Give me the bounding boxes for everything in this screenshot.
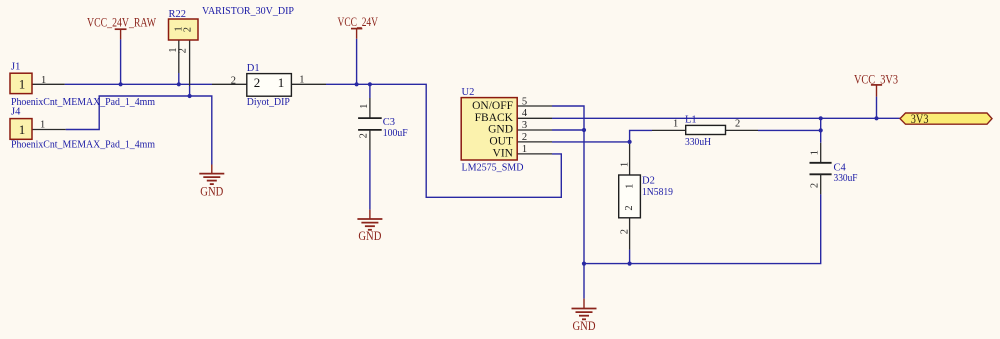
wire U2 FBACK to 3V3 rail xyxy=(552,117,900,119)
svg-text:330uH: 330uH xyxy=(685,137,711,148)
ground GND at J4 net xyxy=(199,165,224,199)
svg-text:GND: GND xyxy=(358,229,381,243)
wire VCC_24V power stem xyxy=(356,39,358,85)
svg-text:PhoenixCnt_MEMAX_Pad_1_4mm: PhoenixCnt_MEMAX_Pad_1_4mm xyxy=(11,139,155,150)
svg-text:1: 1 xyxy=(620,162,631,167)
diode D2 xyxy=(619,144,673,250)
svg-text:4: 4 xyxy=(522,108,528,119)
wire L1 pin2 to C4 node xyxy=(758,118,821,143)
junction dot R22 pin2 xyxy=(188,94,192,98)
svg-text:D2: D2 xyxy=(642,176,655,187)
svg-text:VARISTOR_30V_DIP: VARISTOR_30V_DIP xyxy=(202,6,294,17)
junction dot R22 pin1 xyxy=(177,82,181,86)
svg-text:1: 1 xyxy=(810,150,821,155)
wire U2 GND pin to vertical xyxy=(552,129,584,131)
IC U2 LM2575 xyxy=(461,87,552,174)
svg-text:D1: D1 xyxy=(247,63,260,74)
svg-text:ON/OFF: ON/OFF xyxy=(472,100,513,112)
wire C3 bottom to GND xyxy=(369,150,371,210)
junction dot VCC_24V xyxy=(355,82,359,86)
svg-text:2: 2 xyxy=(620,229,631,234)
svg-text:1: 1 xyxy=(625,184,636,189)
varistor R22 xyxy=(168,6,294,86)
wire U2 ON/OFF to GND vertical xyxy=(552,106,584,264)
svg-text:1: 1 xyxy=(40,120,45,131)
junction dot GND pin vertical xyxy=(582,128,586,132)
svg-text:1: 1 xyxy=(673,118,678,129)
svg-text:C3: C3 xyxy=(383,117,395,128)
svg-text:3: 3 xyxy=(522,120,527,131)
svg-text:2: 2 xyxy=(810,183,821,188)
svg-text:VIN: VIN xyxy=(493,148,514,160)
junction dot VCC_3V3 xyxy=(874,116,878,120)
svg-text:1N5819: 1N5819 xyxy=(642,187,673,198)
svg-text:1: 1 xyxy=(299,75,304,86)
svg-text:R22: R22 xyxy=(169,9,187,20)
junction dot rail at GND drop xyxy=(582,262,586,266)
ground GND at rail xyxy=(572,299,597,334)
svg-text:2: 2 xyxy=(177,48,188,53)
svg-text:J4: J4 xyxy=(11,107,21,118)
svg-text:J1: J1 xyxy=(11,62,20,73)
svg-text:330uF: 330uF xyxy=(834,173,858,184)
capacitor C3 xyxy=(358,98,408,150)
capacitor C4 xyxy=(810,143,858,195)
diode D1 xyxy=(212,63,326,108)
svg-text:L1: L1 xyxy=(685,115,697,126)
svg-text:FBACK: FBACK xyxy=(475,112,514,124)
junction dot L1 C4 xyxy=(819,128,823,132)
svg-text:2: 2 xyxy=(254,75,260,90)
connector J1 xyxy=(10,62,155,108)
junction dot C4 top xyxy=(819,116,823,120)
svg-text:C4: C4 xyxy=(834,162,847,173)
wire U2 OUT to D2 and L1 xyxy=(552,130,652,142)
port 3V3 xyxy=(900,111,992,126)
connector J4 xyxy=(10,107,155,151)
svg-text:VCC_24V_RAW: VCC_24V_RAW xyxy=(87,16,156,30)
wire VCC_24V_RAW power stem xyxy=(120,39,122,84)
junction dot OUT D2 xyxy=(628,140,632,144)
svg-text:1: 1 xyxy=(359,104,370,109)
svg-text:GND: GND xyxy=(200,185,223,199)
ground GND at C3 xyxy=(357,210,382,243)
svg-text:VCC_24V: VCC_24V xyxy=(338,15,379,29)
svg-text:1: 1 xyxy=(19,122,26,137)
svg-text:100uF: 100uF xyxy=(383,128,408,139)
svg-text:PhoenixCnt_MEMAX_Pad_1_4mm: PhoenixCnt_MEMAX_Pad_1_4mm xyxy=(11,97,155,108)
svg-text:1: 1 xyxy=(41,75,46,86)
svg-text:1: 1 xyxy=(522,144,527,155)
wire C3 top connection xyxy=(369,84,371,98)
wire R22 pin1 to main net xyxy=(178,73,180,84)
junction dot rail at D2 xyxy=(628,262,632,266)
svg-text:GND: GND xyxy=(573,319,596,333)
wire net VCC_24V_RAW main horizontal J1 to D1 xyxy=(65,83,212,85)
wire D2 anode to rail xyxy=(629,250,631,264)
svg-text:GND: GND xyxy=(488,124,513,136)
svg-text:1: 1 xyxy=(19,77,26,92)
power port VCC_24V xyxy=(338,15,379,39)
svg-text:2: 2 xyxy=(183,27,194,32)
junction dot VCC_24V_RAW xyxy=(119,82,123,86)
junction dot C3 top xyxy=(368,82,372,86)
svg-text:2: 2 xyxy=(231,75,236,86)
power port VCC_24V_RAW xyxy=(87,16,156,40)
svg-text:2: 2 xyxy=(358,133,369,138)
svg-text:2: 2 xyxy=(522,132,527,143)
wire R22 pin2 to J4 net xyxy=(189,86,191,96)
wire VCC_3V3 stem xyxy=(876,97,878,119)
wire D1 cathode to VIN zigzag xyxy=(326,84,561,197)
inductor L1 xyxy=(652,115,758,148)
wire net J4 to GND xyxy=(66,96,212,165)
svg-text:5: 5 xyxy=(522,96,527,107)
svg-text:LM2575_SMD: LM2575_SMD xyxy=(462,162,524,173)
svg-text:1: 1 xyxy=(278,75,285,90)
svg-text:OUT: OUT xyxy=(489,136,513,148)
wire ground rail bottom xyxy=(584,194,821,263)
svg-text:U2: U2 xyxy=(462,87,475,98)
svg-text:2: 2 xyxy=(624,205,635,210)
wire GND drop from rail xyxy=(583,264,585,299)
svg-text:3V3: 3V3 xyxy=(911,111,929,126)
svg-text:Diyot_DIP: Diyot_DIP xyxy=(247,97,290,108)
power port VCC_3V3 xyxy=(854,73,898,97)
svg-text:2: 2 xyxy=(735,118,740,129)
